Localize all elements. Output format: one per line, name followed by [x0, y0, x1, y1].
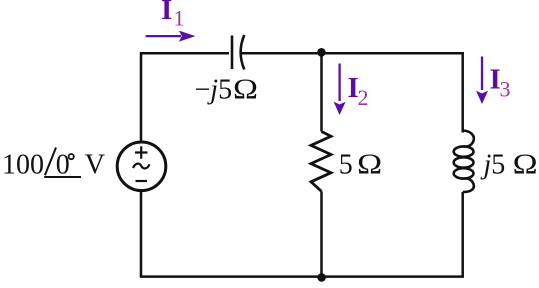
label: phasor angle underline: [44, 176, 81, 178]
wire: left branch bottom (source to bottom wire): [140, 191, 143, 277]
node: bottom junction dot: [317, 273, 326, 282]
svg-text:Ω: Ω: [513, 149, 538, 181]
resistor 5ohm: zigzag: [311, 132, 331, 192]
capacitor -j5: left straight plate: [231, 36, 234, 70]
source V1: AC voltage source circle: [117, 142, 166, 191]
svg-text:j5: j5: [481, 150, 506, 181]
wire: right branch bottom (inductor to bottom wire): [461, 192, 464, 277]
svg-text:2: 2: [358, 85, 369, 110]
svg-text:0: 0: [56, 150, 70, 181]
source V1: plus sign: [135, 146, 148, 158]
inductor j5: loop 3: [454, 168, 474, 178]
svg-text:Ω: Ω: [357, 149, 382, 181]
inductor j5: bottom hook: [463, 178, 474, 192]
arrow: I2 current direction down: [338, 64, 340, 102]
wire: bottom wire: [140, 275, 464, 278]
capacitor -j5: right curved plate: [241, 35, 245, 70]
arrow: I1 current direction right: [146, 35, 181, 37]
svg-text:Ω: Ω: [233, 74, 258, 106]
arrow: I3 current direction down: [481, 57, 483, 91]
svg-text:−j5: −j5: [195, 75, 233, 106]
svg-text:I: I: [161, 0, 172, 26]
svg-text:5: 5: [339, 150, 353, 181]
source V1: sine tilde: [133, 164, 150, 169]
svg-text:3: 3: [500, 77, 511, 102]
wire: middle branch bottom (resistor to bottom node): [320, 191, 323, 276]
wire: top-left segment from source branch corner to capacitor: [141, 53, 229, 140]
source V1: minus sign: [136, 180, 148, 182]
svg-text:100: 100: [2, 150, 44, 181]
wire: top segment from capacitor to top-right corner and down to inductor: [242, 53, 463, 132]
node: top junction dot: [317, 48, 326, 57]
wire: middle branch top (node to resistor): [320, 53, 323, 131]
svg-text:V: V: [85, 150, 105, 181]
svg-text:1: 1: [174, 6, 185, 31]
inductor j5: loop 2: [454, 157, 474, 167]
inductor j5: loop 1: [454, 146, 474, 156]
inductor j5: top hook: [463, 131, 474, 147]
label: phasor angle slash: [45, 148, 56, 176]
